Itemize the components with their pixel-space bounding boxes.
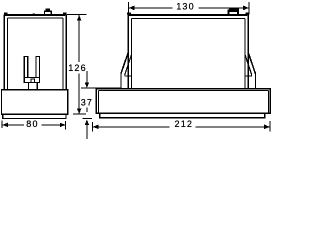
right view top corner tab right [246,13,250,15]
right view base inner top line [98,90,268,92]
right view base inner side right [267,91,269,114]
dimension 212 arrow right [264,125,270,130]
dimension 37 bottom extension line [83,117,93,119]
right view cover outline [128,14,248,90]
dimension 130 arrow left [129,6,135,11]
dimension 212 extension line left [92,122,94,132]
dimension 130 extension line left [128,2,130,13]
left view internal box mark [31,79,35,83]
right view top corner tab left [127,13,131,15]
dimension 80 extension line right [65,121,67,130]
dimension 130 extension line right [248,2,250,13]
dimension 130 arrow right [243,6,249,11]
left view bottom plate [3,114,66,118]
dimension 37 upper line and arrow [85,71,90,88]
dimension 80 arrow left [2,123,8,128]
svg-text:126: 126 [68,63,87,73]
left view internal prong 1 [24,56,28,78]
right view base [96,89,270,114]
left view top corner tab right [63,13,67,15]
svg-text:212: 212 [174,119,193,129]
left view top nub [32,13,35,15]
dimension 212 line [93,126,270,128]
dimension 80 extension line left [1,121,3,128]
left view internal bottom box [24,77,39,82]
svg-text:37: 37 [81,98,93,108]
dimension 126 arrow down [77,108,82,114]
right view bottom plate [100,113,265,118]
dimension 126 top extension line [67,14,87,16]
left view cover outline [4,14,66,90]
right view base inner side left [97,91,99,114]
dimension 212 arrow left [93,125,99,130]
right view left wing [121,53,132,90]
dimension 126 bottom extension line [73,113,86,115]
svg-text:80: 80 [26,119,38,129]
left view internal stub 1 [28,82,30,89]
left view internal stub 2 [36,82,38,89]
dimension 80 line [2,124,65,126]
dimension 37 top extension line [81,87,121,89]
left view top projection [44,8,51,14]
left view top corner tab left [4,13,8,15]
dimension 126 arrow up [77,15,82,21]
svg-text:130: 130 [176,2,195,12]
right view right wing [245,53,256,90]
dimension 212 extension line right [269,121,271,132]
left view internal prong 2 [36,56,40,78]
dimension 130 line [129,7,249,9]
dimension 126 line [78,15,80,114]
dimension 80 arrow right [60,123,66,128]
right view top projection [227,8,239,15]
left view base [2,90,68,114]
dimension 37 lower line and arrow [85,108,90,140]
